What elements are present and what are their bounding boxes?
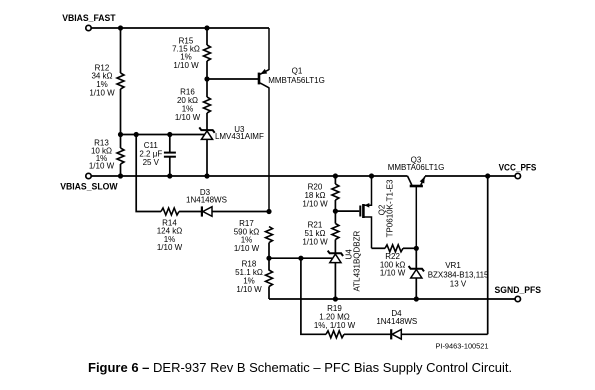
svg-text:1/10 W: 1/10 W: [234, 244, 260, 253]
svg-text:1N4148WS: 1N4148WS: [186, 195, 227, 204]
junction: [118, 132, 123, 137]
wire VCC_PFS rail: [425, 175, 515, 177]
wire U3 anode: [206, 140, 208, 176]
wire: [415, 278, 417, 299]
svg-text:1%, 1/10 W: 1%, 1/10 W: [314, 321, 356, 330]
junction: [266, 209, 271, 214]
junction: [333, 173, 338, 178]
resistor R14: [161, 208, 179, 215]
svg-text:VR1: VR1: [445, 261, 461, 270]
junction: [167, 132, 172, 137]
svg-text:1/10 W: 1/10 W: [173, 61, 199, 70]
transistor Q1: [259, 28, 269, 212]
svg-text:TP0610K-T1-E3: TP0610K-T1-E3: [385, 179, 394, 237]
svg-text:LMV431AIMF: LMV431AIMF: [215, 132, 264, 141]
terminal SGND_PFS: [515, 296, 520, 301]
wire SGND_PFS rail: [269, 298, 515, 300]
diode D3: [202, 206, 212, 216]
svg-text:1/10 W: 1/10 W: [175, 113, 201, 122]
resistor R20: [332, 184, 339, 200]
junction: [134, 132, 139, 137]
wire: [120, 28, 122, 73]
resistor R19: [326, 331, 344, 338]
junction: [485, 173, 490, 178]
wire: [206, 28, 208, 45]
svg-text:BZX384-B13,115: BZX384-B13,115: [428, 270, 489, 279]
resistor R18: [266, 270, 273, 287]
wire: [268, 258, 270, 270]
wire: [403, 247, 416, 249]
resistor R12: [117, 73, 124, 89]
terminal VBIAS_SLOW: [86, 173, 91, 178]
wire: [301, 258, 326, 334]
svg-text:1/10 W: 1/10 W: [302, 238, 328, 247]
wire: [179, 211, 201, 213]
svg-text:1/10 W: 1/10 W: [89, 162, 115, 171]
zener VR1: [409, 266, 424, 278]
wire: [334, 200, 336, 224]
svg-text:VBIAS_SLOW: VBIAS_SLOW: [60, 181, 118, 191]
junction: [204, 173, 209, 178]
svg-text:1N4148WS: 1N4148WS: [376, 317, 417, 326]
terminal VBIAS_FAST: [86, 25, 91, 30]
junction: [266, 256, 271, 261]
wire VCC to D4: [487, 176, 489, 334]
svg-text:MMBTA56LT1G: MMBTA56LT1G: [268, 76, 325, 85]
junction: [204, 25, 209, 30]
svg-text:VCC_PFS: VCC_PFS: [499, 162, 537, 172]
diode D4: [391, 329, 401, 339]
junction: [204, 76, 209, 81]
wire: [268, 243, 270, 259]
resistor R21: [332, 224, 339, 240]
wire U3 reference: [121, 134, 205, 136]
svg-text:SGND_PFS: SGND_PFS: [495, 285, 542, 295]
wire: [402, 333, 488, 335]
wire: [334, 176, 336, 184]
junction: [333, 209, 338, 214]
wire: [206, 61, 208, 97]
wire: [120, 89, 122, 148]
junction: [414, 296, 419, 301]
wire: [136, 135, 161, 212]
junction: [118, 173, 123, 178]
wire: [344, 333, 391, 335]
wire: [415, 248, 417, 268]
resistor R15: [204, 45, 211, 61]
svg-text:25 V: 25 V: [143, 158, 160, 167]
transistor Q2: [360, 176, 371, 248]
wire VBIAS_FAST rail: [89, 27, 270, 29]
terminal VCC_PFS: [515, 173, 520, 178]
wire: [334, 240, 336, 254]
resistor R17: [266, 227, 273, 243]
wire U4 reference: [269, 257, 332, 259]
svg-text:13 V: 13 V: [450, 279, 467, 288]
shunt regulator U4: [328, 251, 343, 263]
capacitor C11: [164, 153, 176, 157]
wire Q1 base: [207, 78, 259, 80]
svg-text:1/10 W: 1/10 W: [157, 243, 183, 252]
svg-text:1/10 W: 1/10 W: [302, 200, 328, 209]
junction: [167, 173, 172, 178]
junction: [298, 256, 303, 261]
resistor R13: [117, 148, 124, 164]
wire U4 anode: [334, 263, 336, 299]
junction: [414, 246, 419, 251]
wire: [213, 211, 270, 213]
wire: [206, 113, 208, 130]
resistor R16: [204, 97, 211, 113]
svg-text:VBIAS_FAST: VBIAS_FAST: [62, 13, 116, 23]
junction: [118, 25, 123, 30]
wire: [268, 287, 270, 300]
svg-text:1/10 W: 1/10 W: [89, 88, 115, 97]
wire: [372, 247, 386, 249]
svg-text:1/10 W: 1/10 W: [380, 269, 406, 278]
wire: [169, 157, 171, 176]
junction: [333, 296, 338, 301]
svg-text:MMBTA06LT1G: MMBTA06LT1G: [388, 163, 445, 172]
wire Q2 gate: [335, 210, 359, 212]
svg-text:ATL431BQDBZR: ATL431BQDBZR: [352, 230, 361, 291]
wire: [169, 135, 171, 153]
transistor Q3: [408, 176, 426, 248]
svg-text:Figure 6 – DER-937 Rev B Schem: Figure 6 – DER-937 Rev B Schematic – PFC…: [88, 360, 512, 375]
wire VBIAS_SLOW rail: [89, 175, 408, 177]
wire: [120, 164, 122, 176]
svg-text:PI-9463-100521: PI-9463-100521: [435, 342, 488, 351]
shunt regulator U3: [199, 127, 214, 139]
svg-text:Q1: Q1: [292, 67, 303, 76]
junction: [369, 173, 374, 178]
svg-text:1/10 W: 1/10 W: [236, 285, 262, 294]
resistor R22: [385, 245, 403, 252]
